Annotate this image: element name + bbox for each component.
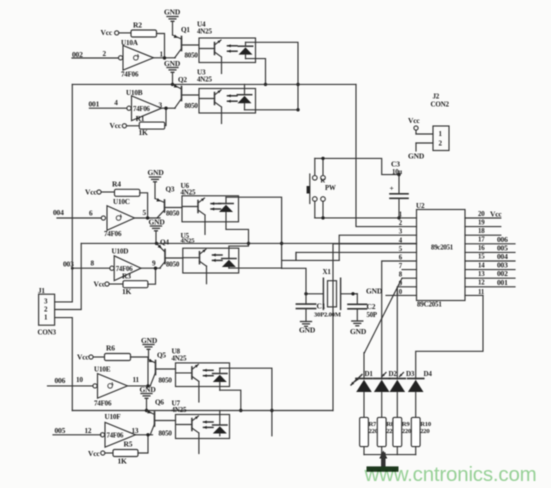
U4 phototransistor (200, 40, 222, 74)
svg-text:Q2: Q2 (178, 76, 187, 84)
svg-text:11: 11 (478, 289, 485, 296)
svg-text:8050: 8050 (185, 102, 199, 110)
svg-text:3: 3 (159, 102, 163, 110)
inverter U10C 74F06 (101, 198, 134, 238)
svg-text:4N25: 4N25 (172, 406, 187, 414)
svg-text:19: 19 (478, 220, 485, 227)
svg-text:GND: GND (164, 8, 181, 17)
wire U2 pin17 output 006 (465, 235, 515, 244)
svg-text:74F06: 74F06 (133, 106, 151, 113)
svg-text:D1: D1 (365, 370, 374, 378)
wire U5/U6 output to crystal left node (282, 268, 306, 294)
pin 8 label (91, 260, 95, 268)
wire U2 pin20 Vcc (465, 210, 502, 219)
svg-text:J2: J2 (433, 93, 440, 101)
svg-text:Vcc: Vcc (77, 353, 89, 362)
svg-text:2: 2 (439, 140, 443, 148)
svg-text:PW: PW (325, 185, 336, 192)
ground GND (Q5 emitter) (141, 336, 158, 360)
svg-text:4N25: 4N25 (197, 76, 212, 84)
transistor Q2 8050 (173, 76, 200, 110)
wire inverter U10A output pin 1 (154, 51, 176, 59)
diode LED D2 (374, 370, 398, 417)
svg-text:74F06: 74F06 (107, 433, 125, 440)
diode U3 LED (237, 84, 251, 109)
svg-text:R6: R6 (106, 344, 115, 353)
svg-text:12: 12 (85, 427, 92, 435)
svg-text:8050: 8050 (166, 261, 180, 269)
wire U6 LED cathode output to mid rail (226, 197, 283, 268)
capacitor C1 30P (296, 294, 341, 322)
U5 phototransistor (183, 249, 206, 284)
svg-text:U10C: U10C (113, 198, 130, 206)
resistor R6 pullup (77, 344, 150, 388)
transistor Q6 8050 (147, 399, 176, 438)
wire U2 pin10 GND stub (366, 287, 417, 296)
svg-text:GND: GND (299, 326, 316, 335)
svg-text:8050: 8050 (166, 210, 180, 218)
svg-text:1: 1 (160, 51, 164, 59)
svg-text:GND: GND (141, 336, 158, 345)
diode U8 LED (213, 368, 227, 390)
svg-text:17: 17 (478, 237, 485, 244)
svg-text:006: 006 (55, 376, 66, 385)
optocoupler U7 4N25 (172, 400, 230, 439)
wire U2 pin16 output 005 (465, 243, 515, 252)
svg-text:U10A: U10A (121, 39, 139, 47)
node 004 input label (53, 208, 101, 218)
connector J2 CON2 (431, 93, 450, 151)
IC U2 89C2051 (416, 202, 465, 309)
svg-text:X1: X1 (323, 268, 332, 276)
svg-text:J1: J1 (38, 287, 45, 295)
wire U2 pin2 from Vcc rail vertical (356, 84, 417, 226)
svg-text:18: 18 (478, 228, 485, 235)
wire U4 LED cathode output to bus (246, 42, 300, 111)
wire U2 pin7 stub (402, 269, 417, 271)
svg-text:C2: C2 (367, 302, 376, 311)
transistor Q1 8050 (173, 26, 200, 60)
svg-text:005: 005 (55, 426, 66, 435)
svg-text:GND: GND (350, 327, 367, 336)
svg-text:1: 1 (439, 130, 443, 138)
wire 002 input (72, 50, 118, 59)
svg-text:Vcc: Vcc (408, 116, 420, 125)
U7 phototransistor (176, 416, 199, 454)
wire U4 LED anode to rail (246, 59, 268, 87)
svg-text:13: 13 (132, 427, 139, 435)
wire U2 pin12 output 001 (465, 278, 515, 287)
svg-text:15: 15 (478, 254, 485, 261)
node 006 input label (48, 376, 93, 386)
transistor Q5 8050 (149, 352, 176, 386)
svg-text:C1: C1 (317, 302, 326, 311)
svg-text:8050: 8050 (159, 377, 173, 385)
svg-text:74F06: 74F06 (94, 399, 112, 407)
U8 light arrows (204, 369, 214, 378)
wire U2 pin4 long vertical to bottom rail (333, 244, 417, 411)
svg-text:4N25: 4N25 (172, 354, 187, 362)
svg-text:CON2: CON2 (431, 101, 450, 109)
svg-text:1K: 1K (118, 456, 128, 465)
svg-text:14: 14 (478, 262, 485, 269)
wire inverter U10D output pin 9 (141, 260, 160, 269)
diode U4 LED (238, 42, 252, 58)
svg-text:89c2051: 89c2051 (431, 245, 454, 252)
svg-text:1: 1 (44, 314, 48, 322)
resistor R2 pullup (101, 21, 167, 60)
svg-text:CON3: CON3 (38, 329, 57, 337)
svg-text:Q3: Q3 (166, 186, 175, 194)
ground GND top (Q1 emitter) (164, 8, 181, 36)
light arrows for LED D1 (351, 375, 362, 386)
svg-text:U10D: U10D (112, 248, 129, 256)
resistor R8 220 (377, 417, 396, 454)
svg-text:GND: GND (164, 59, 181, 68)
wire U2 pin18 (465, 228, 501, 235)
ground GND (mid rail, Q4 emitter) (149, 218, 166, 244)
svg-text:GND: GND (148, 168, 165, 177)
U3 light arrows (228, 94, 238, 103)
wire U2 pin15 output 004 (465, 252, 515, 261)
wire top rail from J1 pin3 (72, 83, 356, 86)
svg-text:R2: R2 (133, 21, 142, 30)
svg-text:Q1: Q1 (181, 26, 190, 34)
node 005 input label (53, 426, 101, 435)
svg-text:D3: D3 (406, 370, 415, 378)
svg-text:GND: GND (408, 152, 425, 161)
svg-text:50P: 50P (367, 312, 377, 319)
wire diode D1 to diagonal (363, 353, 366, 379)
svg-text:R5: R5 (124, 439, 133, 448)
wire crystal top rail (282, 252, 340, 260)
pin 12 label (85, 427, 92, 435)
svg-text:R1: R1 (136, 114, 145, 123)
U6 light arrows (211, 202, 221, 211)
svg-text:D2: D2 (389, 370, 398, 378)
svg-text:10u: 10u (392, 169, 402, 176)
svg-text:10: 10 (76, 376, 83, 384)
svg-text:2: 2 (103, 50, 107, 58)
svg-text:89C2051: 89C2051 (417, 301, 442, 309)
diode U6 LED (219, 197, 233, 229)
resistor R9 220 (393, 417, 412, 454)
resistor R7 220 (360, 417, 379, 454)
resistor R10 220 (411, 417, 432, 454)
U3 phototransistor (200, 90, 222, 124)
svg-text:001: 001 (89, 99, 100, 108)
pin 6 label (89, 209, 93, 217)
U5 light arrows (213, 253, 223, 262)
svg-text:11: 11 (133, 376, 140, 384)
ground GND (bottom rail, Q6 emitter) (140, 385, 157, 411)
svg-text:U10F: U10F (105, 413, 122, 421)
wire inverter U10E output pin 11 (128, 376, 151, 386)
svg-text:www.cntronics.com: www.cntronics.com (364, 463, 537, 486)
U7 light arrows (204, 420, 214, 429)
wire J1 pin1 to bottom rail (55, 318, 73, 411)
ground GND J2 (408, 143, 433, 161)
wire inverter U10B output pin 3 (159, 102, 176, 110)
svg-text:R4: R4 (112, 180, 121, 189)
wire J1 pin3 to top rail and 003 (55, 84, 73, 302)
wire resistor commons (364, 454, 416, 456)
svg-text:Vcc: Vcc (490, 210, 502, 219)
wire U8 LED anode to bottom rail (220, 390, 243, 412)
svg-text:C3: C3 (391, 160, 400, 169)
wire U5 LED anode output (229, 267, 282, 269)
resistor R3 1K pullup (94, 267, 158, 297)
resistor R4 pullup (85, 180, 149, 220)
svg-text:13: 13 (478, 271, 485, 278)
ground GND under C2 (350, 321, 367, 336)
wire J1 pin2 to middle rail (55, 243, 82, 309)
svg-text:K: K (321, 179, 326, 185)
svg-text:2: 2 (44, 306, 48, 314)
transistor Q4 8050 (157, 239, 183, 269)
inverter U10E 74F06 (93, 366, 128, 408)
diode U5 LED (222, 259, 236, 269)
inverter U10B 74F06 (126, 89, 162, 121)
ground power GND bar (thick) (367, 451, 399, 472)
push button PW (307, 158, 336, 218)
wire inverter U10F output pin 13 (132, 427, 153, 435)
optocoupler U6 4N25 (181, 182, 239, 222)
resistor R1 1K pullup (110, 107, 168, 138)
svg-text:16: 16 (478, 245, 485, 252)
svg-text:4: 4 (114, 99, 118, 107)
U6 phototransistor (183, 198, 206, 234)
svg-text:Q6: Q6 (155, 399, 164, 407)
svg-text:GND: GND (149, 218, 166, 227)
svg-text:001: 001 (497, 278, 508, 287)
svg-text:D4: D4 (424, 370, 433, 378)
svg-text:Q5: Q5 (157, 352, 166, 360)
optocoupler U8 4N25 (172, 348, 230, 387)
svg-text:220: 220 (402, 428, 412, 435)
node 003 input label (63, 260, 110, 270)
capacitor C3 10u electrolytic (390, 160, 409, 218)
wire U2 pin14 output 003 (465, 261, 515, 270)
node 001 input label (89, 99, 127, 108)
U8 phototransistor (176, 364, 199, 402)
wire middle rail from J1 pin2 (81, 242, 416, 245)
ground GND (Q3 emitter) (148, 168, 165, 199)
svg-text:+: + (390, 184, 394, 193)
svg-text:5: 5 (143, 209, 147, 217)
svg-text:20: 20 (478, 211, 485, 218)
svg-text:Vcc: Vcc (88, 449, 100, 458)
power Vcc J2 (408, 116, 433, 134)
U2 left pin number labels (396, 212, 403, 296)
ground GND under C1 (299, 322, 316, 335)
wire inverter U10C output pin 5 (135, 209, 161, 218)
diode LED D4 (408, 370, 433, 417)
svg-text:1K: 1K (139, 128, 149, 137)
svg-text:GND: GND (140, 385, 157, 394)
svg-text:8050: 8050 (185, 52, 199, 60)
wire bottom rail from J1 pin1 (72, 409, 333, 412)
wire U2 pin9 to diode D3 (397, 287, 416, 379)
svg-text:Vcc: Vcc (110, 121, 122, 130)
diode LED D1 (356, 370, 373, 417)
inverter U10A 74F06 (119, 39, 154, 79)
crystal X1 (304, 268, 356, 309)
svg-text:Vcc: Vcc (85, 188, 97, 197)
U4 light arrows (228, 44, 238, 53)
wire PW top to C3 (Vcc line) (315, 157, 401, 177)
wire U2 pin8 diagonal to diode D1 (365, 278, 417, 352)
pin 4 label (114, 99, 118, 107)
svg-text:12: 12 (478, 280, 485, 287)
inverter U10F 74F06 (100, 413, 135, 447)
svg-text:74F06: 74F06 (104, 230, 122, 238)
wire U2 pin19 (465, 220, 501, 227)
svg-text:9: 9 (152, 260, 156, 268)
capacitor C2 50P (348, 294, 377, 321)
pin 10 label (76, 376, 83, 384)
svg-text:U10B: U10B (126, 89, 143, 97)
inverter U10D 74F06 (110, 248, 141, 281)
svg-text:Q4: Q4 (160, 239, 169, 247)
connector J1 CON3 (38, 287, 57, 337)
svg-text:R3: R3 (122, 272, 131, 281)
svg-text:U10E: U10E (94, 366, 111, 374)
optocoupler U3 4N25 (197, 69, 256, 114)
optocoupler U4 4N25 (197, 21, 256, 63)
wire U2 pin3 to crystal rail (339, 235, 416, 260)
resistor R5 1K pullup (88, 433, 150, 465)
wire U2 pin13 output 002 (465, 269, 515, 278)
svg-text:Vcc: Vcc (94, 280, 106, 289)
diode U7 LED (213, 411, 227, 436)
svg-text:1K: 1K (122, 287, 132, 296)
wire U2 pin6 to diode D2 (382, 261, 417, 379)
svg-text:8050: 8050 (159, 430, 173, 438)
svg-text:6: 6 (89, 209, 93, 217)
svg-text:GND: GND (366, 287, 383, 296)
svg-text:3: 3 (44, 298, 48, 306)
svg-text:004: 004 (53, 208, 64, 217)
svg-text:30P2.00M: 30P2.00M (314, 312, 342, 319)
svg-text:4N25: 4N25 (181, 238, 196, 245)
wire PW bottom to U2 pin1 (315, 216, 417, 219)
optocoupler U5 4N25 (181, 232, 239, 273)
svg-text:74F06: 74F06 (121, 71, 139, 79)
svg-text:U2: U2 (416, 202, 425, 210)
wire U3 LED anode output (245, 109, 299, 111)
svg-text:8: 8 (91, 260, 95, 268)
diode LED D3 (389, 370, 415, 417)
watermark www.cntronics.com (364, 463, 537, 486)
svg-text:220: 220 (420, 428, 430, 435)
ground GND (top rail, Q2 emitter) (164, 59, 181, 84)
wire U6 LED anode to U5 LED (226, 229, 250, 258)
wire U2 pin5 to crystal (296, 252, 417, 260)
wire U8 LED cathode output down to U7 (220, 368, 274, 436)
svg-text:4N25: 4N25 (197, 28, 212, 36)
wire U2 pin11 to diode D4 (416, 289, 485, 379)
pin 2 label (103, 50, 107, 58)
svg-text:4N25: 4N25 (181, 189, 196, 197)
svg-text:Vcc: Vcc (101, 28, 113, 37)
transistor Q3 8050 (155, 186, 182, 219)
